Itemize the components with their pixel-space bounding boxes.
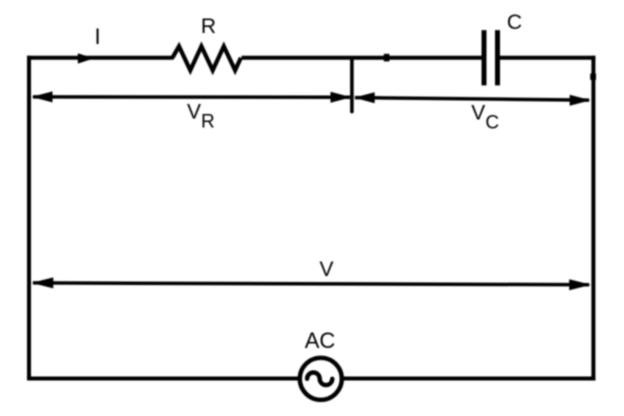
svg-text:V: V: [319, 258, 333, 281]
svg-text:I: I: [95, 24, 101, 49]
svg-text:VC: VC: [471, 102, 499, 134]
svg-text:C: C: [507, 11, 522, 34]
svg-text:VR: VR: [187, 101, 215, 133]
svg-text:R: R: [201, 15, 216, 38]
svg-text:AC: AC: [305, 328, 336, 353]
